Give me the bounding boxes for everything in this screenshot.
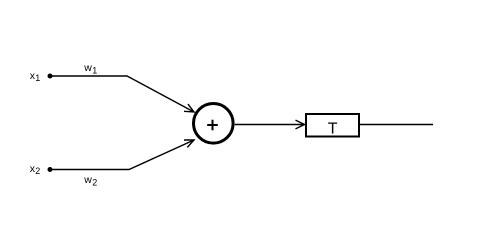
wire from summing junction to threshold block <box>235 124 305 126</box>
arrowhead into threshold block <box>296 120 305 129</box>
svg-text:2: 2 <box>35 166 40 176</box>
arrowhead into summing junction (top) <box>184 104 194 112</box>
input terminal dot (x1) <box>48 74 53 79</box>
wire from x1 to summing junction <box>52 76 194 112</box>
arrowhead into summing junction (bottom) <box>184 140 194 147</box>
input label x2 <box>30 163 41 176</box>
plus sign inside summing junction <box>207 120 218 131</box>
weight label w2 <box>83 174 97 187</box>
weight label w1 <box>83 62 97 75</box>
input terminal dot (x2) <box>48 167 53 172</box>
output wire <box>360 124 433 126</box>
svg-text:w: w <box>83 174 92 186</box>
svg-text:1: 1 <box>92 65 97 75</box>
wire from x2 to summing junction <box>52 140 194 170</box>
svg-text:w: w <box>83 62 92 74</box>
input label x1 <box>30 70 41 83</box>
svg-text:1: 1 <box>35 73 40 83</box>
threshold block rectangle <box>306 114 359 137</box>
svg-text:2: 2 <box>92 178 97 188</box>
summing junction circle <box>194 104 234 144</box>
svg-text:T: T <box>328 121 338 138</box>
